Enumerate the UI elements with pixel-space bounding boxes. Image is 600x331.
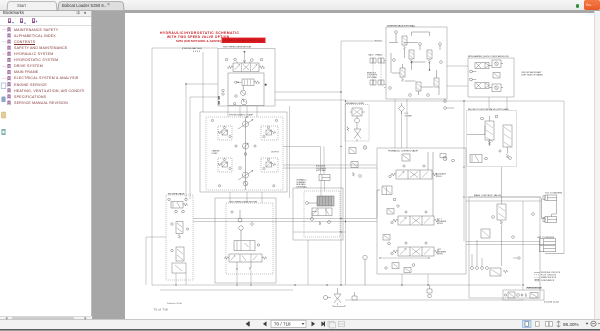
wires motor to filter riser: [275, 92, 345, 100]
oil cooler diamond: [399, 103, 405, 114]
bottom center: return filter: [324, 255, 368, 306]
view mode icons right: [523, 320, 561, 327]
tilt cylinder 2: [542, 198, 557, 223]
wire oil cooler drop: [401, 112, 403, 149]
bob-tach: valve: [306, 202, 332, 226]
orange promo button: [584, 0, 600, 10]
lift arm bypass valve internals: [504, 292, 538, 298]
two speed drive motor (bottom) dashed box: [226, 203, 273, 274]
lift cylinder 1: [540, 239, 556, 245]
wires motor to pump: [228, 106, 257, 117]
wire top-left horizontal: [152, 47, 218, 49]
top motor: inner block: [228, 73, 264, 106]
bucket position valve: stack 2: [499, 125, 512, 159]
wires control valve to lift cylinders: [466, 242, 540, 245]
wires pump to bottom motor: [230, 192, 262, 203]
wires coupler block to bucket valve: [489, 97, 507, 110]
mid components between filter and control valve: [349, 146, 367, 178]
lift arm by-pass valve box: [503, 290, 544, 300]
top motor: gauge circles: [218, 84, 266, 105]
wire control valve internal link: [380, 257, 429, 259]
wires pump to control valve: [283, 165, 377, 168]
wires bottom motor drains: [237, 270, 251, 285]
wire bob-tach feed: [283, 147, 325, 197]
wire bottom return line: [345, 299, 523, 300]
toolbar icon row under header is drawn in icon SVG: [0, 25, 91, 26]
control valve: lift spool: [391, 242, 439, 256]
diverter valve: cartridge valves: [400, 36, 439, 91]
pump: main pump circle 1: [238, 119, 253, 129]
control valve: auxiliary spool: [389, 165, 437, 179]
top motor: pilot ports: [225, 51, 263, 63]
bucket position valve: solenoid: [467, 126, 487, 163]
wire right box verticals: [464, 101, 564, 254]
tree expander dashes: [2, 30, 7, 79]
panel toolbar flag buttons: [8, 18, 38, 23]
wire bob-tach drain: [307, 240, 309, 285]
two speed valve: solenoid valve: [168, 198, 188, 213]
panel header: [0, 11, 91, 18]
wires two speed valve drains: [176, 273, 186, 285]
lift cylinder 2: [540, 246, 565, 254]
hydraulic control valve box: [377, 148, 466, 274]
pump: sub valve group 3: [218, 158, 232, 187]
right scrollbar: [594, 11, 600, 320]
wires long crossover pair: [193, 219, 377, 222]
wire center riser A with pilot branch: [341, 41, 383, 285]
right mid small ports: [444, 100, 455, 110]
bucket position valve: stack 1: [481, 115, 498, 146]
diverter valve: ports: [389, 31, 443, 97]
two speed drive motor (top) box: [218, 49, 275, 107]
wires diverter to coupler block: [447, 66, 468, 86]
two speed valve: cartridge 2: [171, 247, 186, 273]
page number box: [271, 320, 306, 327]
wires diverter to control valve: [395, 99, 407, 148]
status bar: nav cluster: [246, 321, 325, 326]
rear aux couplers: [370, 58, 384, 85]
wire motor feed L-shape A: [186, 84, 218, 199]
control valve: tilt spool: [391, 211, 439, 225]
diverter valve box: [386, 27, 447, 99]
integrated quick coupler block box: [468, 58, 514, 97]
bottom motor: motor block: [234, 241, 260, 251]
wire left bus vertical: [151, 48, 153, 285]
control valve: relief B + check: [387, 205, 399, 214]
pump: sub valve group 2: [261, 119, 278, 140]
nav strip icons (left edge): [1, 83, 6, 135]
wire two-speed valve drop: [146, 237, 166, 285]
wire bob-tach horizontal: [293, 231, 346, 233]
pump: centerline small ports: [239, 153, 247, 170]
bucket position valve dashed box: [467, 111, 517, 167]
top motor: solenoid valve: [235, 79, 260, 86]
main control valve internals: [471, 167, 535, 276]
wire left of motor: [202, 52, 204, 112]
coupler stubs to diverter: [384, 61, 386, 88]
pump: charge pump circle: [235, 143, 256, 149]
bottom center: tank symbols: [352, 285, 432, 300]
wire top main horizontal: [345, 100, 564, 102]
hydrostatic pump outer box: [200, 112, 287, 192]
wire bottom parallel: [160, 289, 293, 291]
two speed valve dashed box: [166, 195, 193, 280]
pump: sub valve group 1: [211, 119, 232, 140]
bookmark flags for 13 rows: [8, 27, 11, 105]
bob-tach dashed box: [304, 191, 340, 237]
quick coupler block: coupler 2: [475, 83, 489, 89]
green status dot: [576, 4, 579, 7]
control valve: relief A: [377, 186, 396, 218]
bob-tach: motor block: [317, 196, 334, 206]
wire motor feed L-shape B: [190, 97, 218, 199]
wire bottom bus: [152, 284, 521, 286]
hydraulic filter dashed box: [345, 105, 369, 142]
hydrostatic pump dashed box: [206, 117, 283, 190]
legend line samples: [534, 271, 540, 273]
wire motor-pump right riser: [289, 106, 291, 198]
pump: center drive line: [245, 117, 247, 190]
wires control valve to tilt cylinders: [466, 197, 541, 201]
two speed drive motor (bottom) outer box: [215, 198, 276, 283]
wire inside main control valve: [522, 201, 524, 290]
panel h-scrollbar arrows: [5, 317, 86, 320]
quick coupler block: coupler 1: [470, 63, 489, 81]
grayed snapshot icons: [328, 321, 345, 328]
tilt cylinder 1: [543, 195, 557, 201]
white page: [125, 13, 594, 319]
bottom motor: shift valve bank: [224, 254, 266, 270]
pump: sub valve group 4: [261, 158, 278, 187]
pump: main pump circle 2: [238, 170, 253, 180]
svg-text:98.30%: 98.30%: [563, 322, 579, 327]
panel horizontal scrollbar: [0, 316, 91, 322]
svg-text:70 / 718: 70 / 718: [274, 322, 291, 327]
bob-tach outer box: [293, 188, 343, 240]
control valve: top inlet components: [402, 152, 454, 216]
wire center riser B: [345, 101, 347, 285]
quick coupler block: outlet blocks: [489, 60, 503, 92]
control valve: relief C: [383, 235, 390, 245]
two speed valve: cartridge 1: [171, 222, 189, 239]
control valve: bottom reliefs: [385, 263, 415, 273]
wires control valve drains: [402, 274, 428, 285]
bottom motor: port circles: [231, 210, 253, 240]
main control valve box: [469, 197, 540, 298]
top motor: 4-way valve: [227, 63, 265, 72]
bob-tach: cylinder glyph: [319, 175, 330, 181]
search highlight box: [222, 38, 266, 43]
pump: aux pump circle: [243, 181, 248, 186]
hydraulic filter: components: [347, 108, 365, 142]
